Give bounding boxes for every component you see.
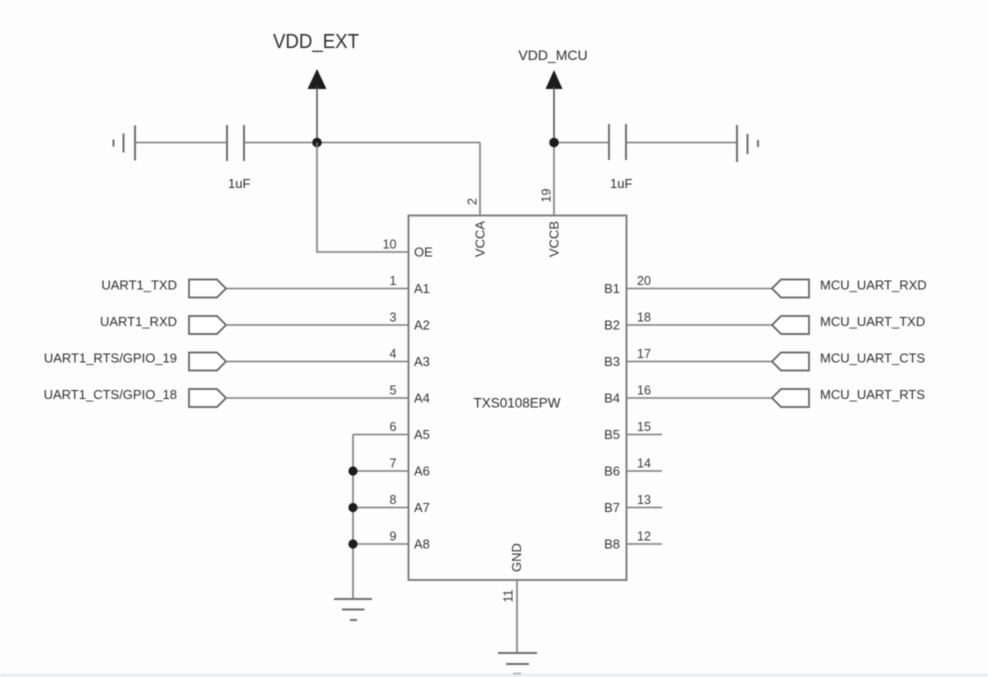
power flag VDD_EXT	[273, 31, 359, 143]
connector (MCU_UART_RTS)	[772, 389, 809, 407]
svg-text:OE: OE	[414, 245, 433, 260]
wire A8	[353, 543, 409, 545]
wire B7 stub	[627, 507, 663, 509]
svg-text:A3: A3	[414, 354, 430, 369]
wire A2	[226, 324, 409, 326]
svg-text:VDD_MCU: VDD_MCU	[518, 47, 587, 63]
wire node to OE pin	[317, 143, 409, 253]
svg-text:11: 11	[502, 589, 516, 602]
svg-text:B4: B4	[604, 391, 620, 406]
svg-text:VCCA: VCCA	[473, 221, 488, 257]
capacitor C1	[227, 125, 244, 161]
connector (MCU_UART_TXD)	[772, 316, 809, 334]
wire A4	[226, 397, 409, 399]
svg-text:A1: A1	[414, 281, 430, 296]
svg-text:VDD_EXT: VDD_EXT	[273, 31, 359, 53]
wire C1 to node VDD_EXT and to VCCA corner	[245, 142, 481, 144]
svg-text:GND: GND	[509, 543, 524, 572]
wire B2	[627, 324, 773, 326]
junction (A8 tie)	[348, 539, 357, 548]
connector (UART1_CTS)	[189, 389, 226, 407]
svg-text:15: 15	[637, 420, 651, 434]
svg-text:MCU_UART_CTS: MCU_UART_CTS	[820, 351, 926, 366]
svg-text:3: 3	[390, 311, 397, 325]
svg-text:19: 19	[540, 189, 554, 203]
power flag VDD_MCU	[518, 47, 587, 143]
junction node VDD_EXT	[312, 138, 322, 148]
wire ground to C1	[135, 142, 227, 144]
svg-text:VCCB: VCCB	[547, 221, 562, 257]
svg-text:14: 14	[637, 457, 651, 471]
connector (UART1_RXD)	[189, 316, 226, 334]
svg-text:B1: B1	[604, 281, 620, 296]
svg-text:12: 12	[637, 530, 651, 544]
wire A5	[353, 434, 409, 436]
wire VCCA drop	[479, 143, 481, 216]
wire A5-A8 tie bus	[352, 435, 354, 600]
wire B4	[627, 397, 773, 399]
junction (A7 tie)	[348, 503, 357, 512]
svg-text:9: 9	[390, 530, 397, 544]
junction (A6 tie)	[348, 466, 357, 475]
svg-text:A8: A8	[414, 537, 430, 552]
svg-text:MCU_UART_TXD: MCU_UART_TXD	[820, 314, 925, 329]
wire B1	[627, 288, 773, 290]
ground (top-right, rotated)	[737, 125, 758, 162]
wire A6	[353, 470, 409, 472]
connector (UART1_RTS)	[189, 353, 226, 371]
ground (top-left, rotated)	[114, 126, 136, 161]
wire node VDD_MCU to C2	[554, 142, 609, 144]
ground (bottom-center)	[498, 653, 537, 674]
wire A3	[226, 361, 409, 363]
wire A7	[353, 507, 409, 509]
svg-text:A5: A5	[414, 427, 430, 442]
svg-text:6: 6	[390, 420, 397, 434]
svg-text:UART1_RTS/GPIO_19: UART1_RTS/GPIO_19	[44, 351, 177, 366]
svg-text:MCU_UART_RTS: MCU_UART_RTS	[820, 387, 925, 402]
svg-text:B3: B3	[604, 354, 620, 369]
svg-text:2: 2	[466, 198, 480, 205]
svg-text:UART1_TXD: UART1_TXD	[101, 278, 177, 293]
op IC U1 TXS0108EPW body	[409, 216, 627, 581]
connector (MCU_UART_CTS)	[772, 353, 809, 371]
svg-text:B6: B6	[604, 464, 620, 479]
svg-text:13: 13	[637, 493, 651, 507]
connector (MCU_UART_RXD)	[772, 280, 809, 298]
wire B8 stub	[627, 543, 663, 545]
svg-text:7: 7	[390, 457, 397, 471]
wire VCCB drop	[553, 143, 555, 216]
svg-text:1: 1	[390, 274, 397, 288]
capacitor C2	[609, 124, 626, 160]
svg-text:B2: B2	[604, 318, 620, 333]
svg-text:A2: A2	[414, 318, 430, 333]
svg-text:17: 17	[637, 347, 651, 361]
bottom page divider line	[0, 674, 988, 677]
wire B6 stub	[627, 470, 663, 472]
svg-text:A7: A7	[414, 500, 430, 515]
svg-text:UART1_RXD: UART1_RXD	[100, 314, 177, 329]
svg-text:1uF: 1uF	[228, 176, 250, 191]
svg-text:A4: A4	[414, 391, 430, 406]
svg-text:B7: B7	[604, 500, 620, 515]
svg-text:B5: B5	[604, 427, 620, 442]
wire B5 stub	[627, 434, 663, 436]
junction node VDD_MCU	[549, 138, 559, 148]
svg-text:4: 4	[390, 347, 397, 361]
wire B3	[627, 361, 773, 363]
wire A1	[226, 288, 409, 290]
svg-text:UART1_CTS/GPIO_18: UART1_CTS/GPIO_18	[44, 387, 177, 402]
wire C2 to ground	[627, 142, 738, 144]
connector (UART1_TXD)	[189, 280, 226, 298]
svg-text:1uF: 1uF	[610, 176, 632, 191]
svg-text:18: 18	[637, 311, 651, 325]
svg-text:20: 20	[637, 274, 651, 288]
svg-text:8: 8	[390, 493, 397, 507]
svg-text:10: 10	[383, 238, 397, 252]
wire GND pin stub	[516, 580, 518, 653]
svg-text:A6: A6	[414, 464, 430, 479]
ground (bottom-left)	[334, 599, 372, 620]
svg-text:TXS0108EPW: TXS0108EPW	[473, 396, 560, 411]
svg-text:16: 16	[637, 384, 651, 398]
svg-text:B8: B8	[604, 537, 620, 552]
svg-text:5: 5	[390, 384, 397, 398]
svg-text:MCU_UART_RXD: MCU_UART_RXD	[820, 278, 927, 293]
